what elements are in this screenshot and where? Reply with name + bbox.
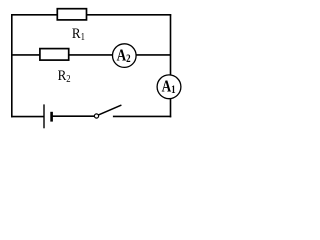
wire switch contact to bottom right: [113, 115, 171, 117]
switch S pivot contact: [94, 114, 98, 118]
resistor R1 body: [57, 9, 86, 20]
wire top (node between battery + and R1/R2 split): [11, 14, 171, 16]
battery short plate (negative): [50, 112, 53, 122]
ammeter A1 body: [157, 75, 181, 99]
wire bottom left (to battery): [11, 116, 44, 118]
resistor R2 body: [40, 49, 69, 61]
battery long plate (positive): [43, 104, 45, 128]
wire middle branch: [12, 54, 171, 56]
switch S blade (open): [99, 105, 122, 115]
wire right vertical: [170, 14, 172, 117]
wire battery to switch pivot: [52, 115, 95, 117]
ammeter A2 body: [113, 44, 137, 68]
wire left vertical: [11, 14, 13, 117]
